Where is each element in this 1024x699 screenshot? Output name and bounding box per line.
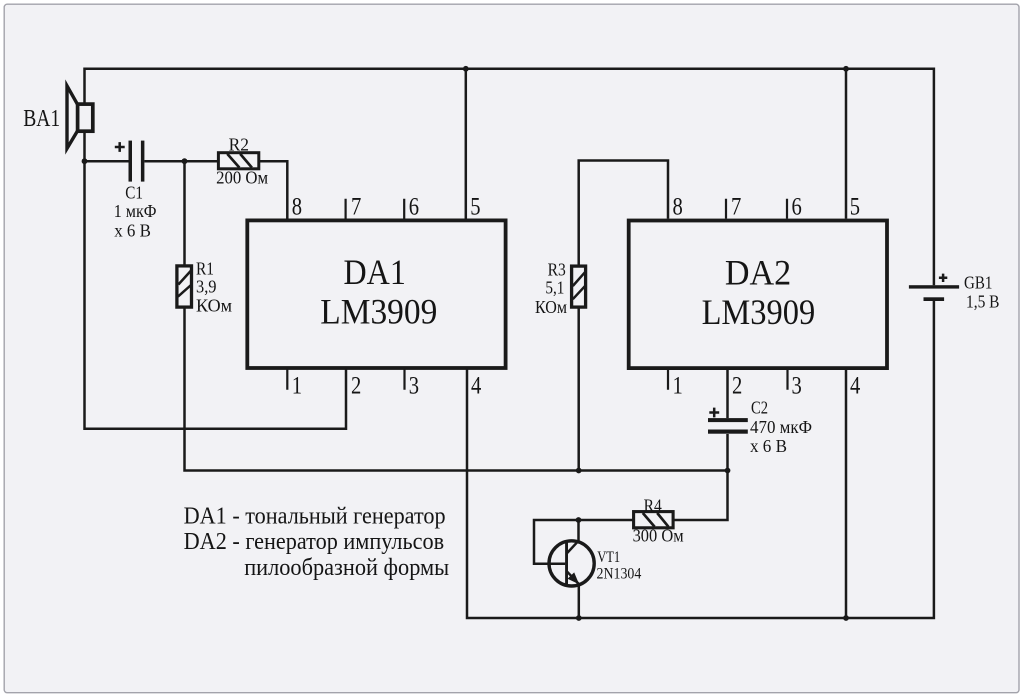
svg-text:8: 8: [292, 194, 302, 221]
svg-text:4: 4: [471, 373, 482, 400]
svg-text:8: 8: [673, 194, 683, 221]
svg-text:R4: R4: [644, 496, 662, 516]
svg-text:пилообразной формы: пилообразной формы: [244, 555, 449, 581]
svg-text:2: 2: [351, 373, 361, 400]
svg-text:DA2 - генератор импульсов: DA2 - генератор импульсов: [184, 529, 445, 555]
svg-text:300 Ом: 300 Ом: [633, 526, 684, 546]
svg-text:DA1 - тональный генератор: DA1 - тональный генератор: [184, 503, 446, 529]
svg-text:200 Ом: 200 Ом: [216, 168, 268, 188]
svg-text:3: 3: [409, 373, 419, 400]
svg-text:7: 7: [351, 194, 361, 221]
svg-text:3: 3: [792, 373, 802, 400]
svg-text:КОм: КОм: [535, 297, 567, 317]
svg-text:7: 7: [731, 194, 741, 221]
svg-text:4: 4: [850, 373, 861, 400]
svg-text:х 6 В: х 6 В: [114, 221, 151, 241]
svg-text:VT1: VT1: [597, 549, 620, 566]
svg-text:GB1: GB1: [964, 273, 992, 293]
svg-text:DA2: DA2: [725, 253, 791, 293]
svg-text:2N1304: 2N1304: [597, 566, 642, 583]
svg-text:6: 6: [409, 194, 419, 221]
svg-text:2: 2: [732, 373, 742, 400]
svg-text:BA1: BA1: [23, 106, 60, 132]
svg-text:1 мкФ: 1 мкФ: [114, 201, 157, 221]
svg-text:КОм: КОм: [196, 296, 232, 316]
svg-text:R2: R2: [229, 135, 249, 155]
svg-text:C1: C1: [125, 183, 143, 203]
svg-text:1: 1: [292, 373, 302, 400]
svg-text:R1: R1: [196, 258, 214, 278]
svg-text:5: 5: [470, 194, 480, 221]
svg-text:C2: C2: [751, 398, 768, 418]
svg-text:5,1: 5,1: [545, 278, 564, 298]
svg-text:LM3909: LM3909: [320, 292, 437, 332]
svg-text:470 мкФ: 470 мкФ: [750, 417, 812, 437]
svg-text:DA1: DA1: [344, 252, 406, 292]
svg-text:6: 6: [792, 194, 802, 221]
svg-text:х 6 В: х 6 В: [750, 436, 787, 456]
svg-text:5: 5: [850, 194, 860, 221]
svg-text:1: 1: [673, 373, 683, 400]
svg-text:1,5 В: 1,5 В: [966, 291, 1000, 311]
svg-text:3,9: 3,9: [196, 277, 217, 297]
svg-text:LM3909: LM3909: [702, 292, 816, 332]
svg-text:R3: R3: [548, 260, 566, 280]
